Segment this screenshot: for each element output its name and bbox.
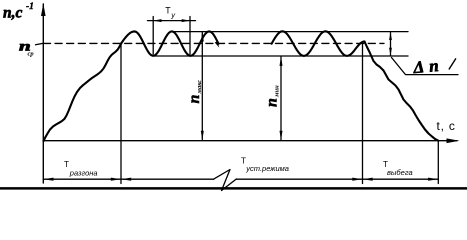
svg-text:n,с: n,с (3, 5, 22, 22)
n_max dimension line (201, 32, 203, 141)
svg-text:мин: мин (273, 85, 280, 98)
svg-text:T: T (241, 156, 246, 165)
dashed mean-speed line (44, 42, 385, 44)
extension line x=362.5 (end of steady state) (362, 43, 364, 184)
bottom dimension line T_ust.rezhima (237, 178, 363, 180)
svg-text:выбега: выбега (387, 168, 413, 177)
steady-state wave section 1 (121, 31, 219, 55)
delta-n leader line (392, 58, 459, 75)
bottom frame line (0, 187, 467, 190)
ramp-up curve (razgon) (44, 43, 122, 141)
delta-n arrowheads (389, 32, 392, 40)
svg-text:-1: -1 (26, 2, 34, 12)
T_u dimension line (148, 20, 196, 22)
x-axis arrowhead (447, 138, 460, 143)
x-axis (time axis) (43, 140, 457, 142)
break (zigzag) symbol (214, 170, 237, 191)
run-down curve (vybeg) (365, 42, 439, 141)
top envelope line (n_max level) (172, 31, 408, 33)
extension line x=121 (end of razgon) (120, 44, 122, 184)
n_min dimension line (280, 56, 282, 140)
bottom envelope line (n_min level) (153, 55, 408, 57)
n_max arrowheads (201, 32, 204, 42)
svg-text:уст.режима: уст.режима (245, 164, 289, 173)
label delta-n (amplitude) (412, 54, 457, 77)
bottom dimension line T_razgona (43, 178, 213, 180)
delta-n amplitude arrow shaft (390, 32, 392, 56)
svg-text:макс: макс (196, 80, 203, 95)
extension line x=438 (end of vybeg) (437, 141, 439, 184)
tick from n_cp label to axis (36, 43, 44, 45)
steady-state wave section 2 (272, 31, 365, 56)
T_u dimension arrowheads (153, 19, 161, 22)
n_min arrowheads (280, 56, 283, 66)
T_u extension line right (189, 17, 191, 55)
label n_max (rotated) (186, 80, 203, 104)
bottom dimension arrowheads (43, 178, 53, 181)
y-axis arrowhead (41, 3, 46, 16)
svg-text:t, c: t, c (437, 119, 456, 133)
bottom dimension line T_vybega (363, 178, 439, 180)
label n_min (rotated) (264, 85, 281, 107)
svg-text:T: T (64, 160, 69, 169)
y-axis (42, 4, 44, 183)
svg-text:разгона: разгона (69, 168, 98, 177)
svg-text:n: n (186, 95, 203, 104)
svg-text:n: n (264, 98, 281, 107)
T_u extension line left (152, 17, 154, 55)
svg-text:Δn: Δn (412, 56, 445, 78)
svg-text:ср: ср (28, 51, 35, 58)
wave section 1 terminal arrowhead (215, 41, 220, 47)
